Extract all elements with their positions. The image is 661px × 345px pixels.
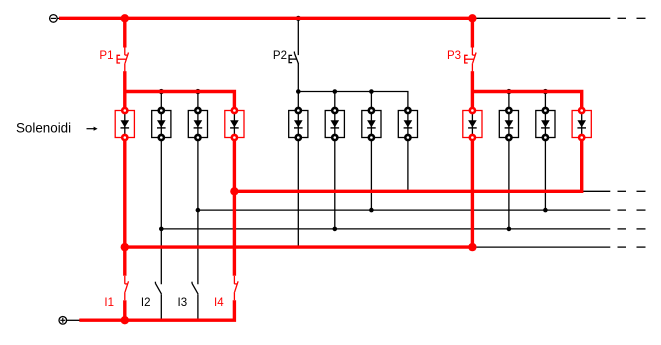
solenoid module D8 (diode, group2 col4) xyxy=(398,108,417,140)
pushbutton P2 (open) xyxy=(289,52,298,64)
solenoid module D12 (diode, group3 col4) xyxy=(572,108,591,140)
wire top bus (red) xyxy=(59,17,472,20)
wire module 10 bottom to row3 xyxy=(508,138,510,229)
wire row4 right thin segment xyxy=(472,246,610,248)
svg-text:I1: I1 xyxy=(104,297,114,309)
wire bottom bus (red) with I4 lead xyxy=(79,300,234,320)
wire group1 rail (red) xyxy=(125,92,235,111)
wire row1 right thin segment xyxy=(582,190,611,192)
wire I3 bottom lead xyxy=(197,294,199,320)
svg-text:P1: P1 xyxy=(99,50,113,62)
wire group2 rail xyxy=(298,92,408,111)
junction dot (row2 / I3 column) xyxy=(196,208,201,213)
bus continuation dashes (row3) xyxy=(618,228,646,230)
wire I1 bottom lead (red thick) xyxy=(123,300,126,320)
label I4 xyxy=(214,297,224,309)
junction dot (top bus / P1, red) xyxy=(121,14,129,22)
wire row3 bus (column-2 return) xyxy=(161,228,610,230)
solenoid module D7 (diode, group2 col3) xyxy=(362,108,381,140)
wire P3 lower lead (red thick) xyxy=(471,71,474,110)
label P1 xyxy=(99,50,113,62)
switch I2 (open) xyxy=(155,282,161,294)
wire P3 top lead (red thick) xyxy=(471,18,474,47)
arrow to solenoid modules xyxy=(87,127,98,131)
wire module 10 top lead xyxy=(508,92,510,111)
wire module 8 bottom to row1 xyxy=(407,138,409,191)
solenoid module D5 (diode, group2 col1) xyxy=(289,108,308,140)
junction dot (row1 / I4 column, red) xyxy=(230,187,238,195)
junction dot (group2 rail col2) xyxy=(333,89,338,94)
junction dot (group1 rail col2, black) xyxy=(159,89,164,94)
wire row2 bus (column-3 return) xyxy=(198,209,610,211)
wire module 11 bottom to row2 xyxy=(544,138,546,211)
junction dot (row3 / module 6) xyxy=(333,227,338,232)
wire P2 to module 5 xyxy=(297,63,299,110)
solenoid module D10 (diode, group3 col2) xyxy=(499,108,518,140)
wire module 7 top lead xyxy=(370,92,372,111)
junction dot (group1 rail col3, black) xyxy=(195,89,200,94)
junction dot (row3 / I2 column) xyxy=(159,227,164,232)
switch I3 (open) xyxy=(192,282,198,294)
junction dot (top bus / P3, red) xyxy=(468,14,476,22)
label Solenoidi xyxy=(16,120,71,135)
junction dot (group3 rail col2, black) xyxy=(506,89,511,94)
wire module 3 top lead xyxy=(197,92,199,111)
label P2 xyxy=(273,50,287,62)
svg-text:P3: P3 xyxy=(447,50,461,62)
solenoid module D2 (diode, group1 col2) xyxy=(152,108,171,140)
wire module 2 bottom to I2 xyxy=(160,138,162,285)
wire module 1 bottom to I1 (red) xyxy=(123,138,126,276)
terminal X1 (minus pole) xyxy=(50,15,60,23)
solenoid module D6 (diode, group2 col2) xyxy=(325,108,344,140)
svg-text:I3: I3 xyxy=(178,297,188,309)
wire top bus right thin segment xyxy=(472,17,610,19)
junction dot (group2 rail col3) xyxy=(369,89,374,94)
solenoid module D11 (diode, group3 col3) xyxy=(536,108,555,140)
wire module 3 bottom to I3 xyxy=(197,138,199,285)
junction dot (row2 / module 11) xyxy=(543,208,548,213)
solenoid module D4 (diode, group1 col4) xyxy=(225,108,244,140)
svg-text:I2: I2 xyxy=(141,297,151,309)
pushbutton P1 (closed) xyxy=(117,47,128,71)
solenoid module D9 (diode, group3 col1) xyxy=(463,108,482,140)
bus continuation dashes (row1) xyxy=(618,190,646,192)
label I2 xyxy=(141,297,151,309)
pushbutton P3 (closed) xyxy=(465,47,476,71)
junction dot (bottom bus / I1, red) xyxy=(121,316,129,324)
svg-text:Solenoidi: Solenoidi xyxy=(16,120,71,135)
wire module 4 bottom to I4 (red) xyxy=(233,138,236,276)
wire module 6 top lead xyxy=(334,92,336,111)
label P3 xyxy=(447,50,461,62)
svg-text:P2: P2 xyxy=(273,50,287,62)
wire P2 top lead xyxy=(297,18,299,55)
wire module 11 top lead xyxy=(544,92,546,111)
wire module 2 top lead xyxy=(160,92,162,111)
terminal X2 (plus pole) xyxy=(59,317,80,325)
junction dot (row2 / module 7) xyxy=(369,208,374,213)
wire module 6 bottom to row3 xyxy=(334,138,336,229)
wire module 7 bottom to row2 xyxy=(370,138,372,211)
junction dot (row4 / module 9, red) xyxy=(468,243,476,251)
label I1 xyxy=(104,297,114,309)
label I3 xyxy=(178,297,188,309)
switch I4 (closed) xyxy=(234,276,238,300)
junction dot (group2 rail col1) xyxy=(296,89,301,94)
wire I2 bottom lead xyxy=(160,294,162,320)
switch I1 (closed) xyxy=(125,276,129,300)
junction dot (row3 / module 10) xyxy=(507,227,512,232)
wire module 5 bottom to row4 xyxy=(297,138,299,246)
svg-text:I4: I4 xyxy=(214,297,224,309)
wire group3 rail (red) xyxy=(472,92,581,111)
solenoid module D3 (diode, group1 col3) xyxy=(188,108,207,140)
solenoid module D1 (diode, group1 col1) xyxy=(115,108,134,140)
bus continuation dashes (row2) xyxy=(618,209,646,211)
junction dot (group3 rail col3, black) xyxy=(543,89,548,94)
wire row1 bus (red) with module 12 lead xyxy=(234,138,581,192)
junction dot (P2 lead on top bus, black) xyxy=(296,16,301,21)
junction dot (row4 / I1 column, red) xyxy=(121,243,129,251)
bus continuation dashes (row4) xyxy=(618,246,646,248)
wire P1 top lead (red thick) xyxy=(123,18,126,47)
wire P1 lower lead (red thick) xyxy=(123,71,126,110)
wire row4 bus (red) xyxy=(125,245,473,248)
wire module 9 bottom lead (red) xyxy=(471,138,474,248)
bus continuation dashes (top bus) xyxy=(618,17,646,19)
